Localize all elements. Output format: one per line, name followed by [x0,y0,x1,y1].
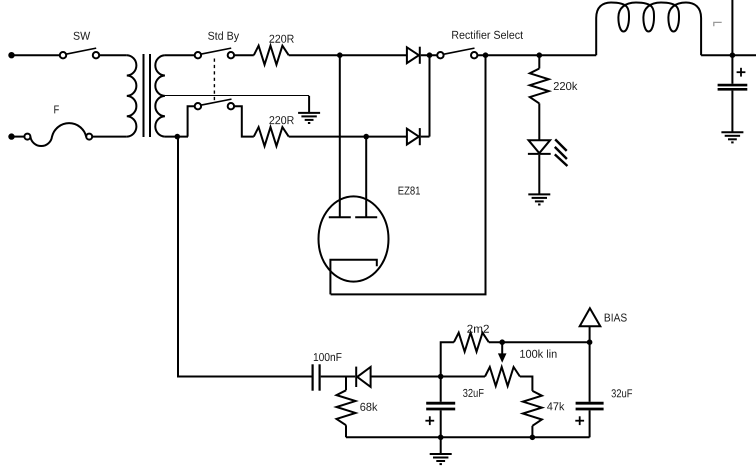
node bias node junction [438,374,444,380]
label BIAS [605,314,627,322]
label 220k [554,82,578,90]
diode D4 bias [356,367,370,387]
wire [489,341,590,343]
wire cathode return [331,55,486,294]
wire standby pole2 to lower resistor [234,106,254,136]
polarity plus 32uF left [425,416,434,425]
label F [54,106,59,114]
label 220R [269,116,293,124]
transformer T1 secondary [155,55,165,136]
label 68k [360,403,377,411]
wire [371,376,441,378]
wire plate 1 drop [339,55,341,217]
switch Std By pole 1 [195,48,234,58]
capacitor 32uF right [576,342,604,437]
switch SW [60,48,99,58]
wire [92,136,127,138]
node wiper junction [499,339,505,345]
wire rail 68k to ground [346,436,441,438]
wire center tap drop [308,96,310,113]
wire [477,54,596,56]
wire [421,54,437,56]
node BIAS junction [587,339,593,345]
node junction to bias feed [175,134,181,140]
wire [12,54,60,56]
label 32uF [463,389,484,397]
transformer T1 core [143,54,145,137]
label 2m2 [467,325,489,333]
ground LED [528,194,550,204]
wire BIAS riser [589,326,591,342]
ground output cap [721,132,743,142]
label EZ81 [399,187,421,195]
diode D1 [407,47,420,64]
inductor L1 choke [596,3,701,56]
node output junction [730,52,736,58]
wire [234,54,254,56]
tube plate 2 [355,216,377,218]
label SW [74,32,91,40]
node junction plate 1 [337,52,343,58]
wire pot left [441,376,485,378]
polarity plus C1 [737,68,746,77]
tube EZ81 envelope [319,196,389,281]
node mains terminal N [8,133,14,139]
capacitor 32uF left [426,377,455,438]
switch Std By gang dashed link [213,59,215,101]
label 220R [269,35,293,43]
label corner mark [714,22,722,26]
diode D2 [407,128,420,145]
label 32uF [612,389,633,397]
wire bias rail [441,436,590,438]
wire [321,376,356,378]
label 100nF [314,353,342,361]
LED D3 [528,140,551,194]
tube plate 1 [329,216,351,218]
node junction plate 2 [363,134,369,140]
node mains terminal L [8,52,14,58]
wire 2m2 left leg [441,342,454,376]
wire [12,136,25,138]
capacitor 100nF [313,364,320,390]
capacitor C1 output [718,55,748,132]
terminal BIAS triangle [580,308,601,326]
wiper arrow [498,342,507,363]
label Rectifier Select [452,31,523,39]
potentiometer 100k lin [485,367,520,386]
LED arrows [555,139,568,166]
wire [289,54,407,56]
node rail 47k junction [530,435,536,441]
wire [289,136,407,138]
node LED branch junction [537,52,543,58]
wire D2 cathode riser [429,55,431,136]
label Std By [208,31,239,42]
tube cathode [330,260,376,295]
polarity plus 32uF right [575,416,584,425]
switch Std By pole 2 [195,99,234,109]
node rectifier output junction [483,52,489,58]
wire secondary top [165,54,195,56]
resistor 220R bottom [254,127,289,146]
resistor 2m2 [454,333,489,352]
switch Rectifier Select [437,48,477,58]
wire pot right to 47k [520,377,533,391]
node rail ground junction [438,435,444,441]
resistor 68k [337,377,356,438]
wire L to standby pole 2 [188,106,195,136]
resistor 220R top [254,46,289,65]
wire [701,54,756,56]
ground center tap [298,113,320,123]
wire [99,54,127,56]
transformer T1 primary [127,55,137,136]
fuse F [24,123,92,146]
node diode junction [427,52,433,58]
wire HT riser to top edge [731,0,733,55]
wire bias feed vertical [178,137,312,377]
wire [421,136,430,138]
resistor 47k [523,391,542,437]
label 47k [547,402,564,410]
ground bias rail [430,437,452,464]
wire secondary center tap [165,95,309,97]
resistor 220k [530,55,549,140]
label 100k lin [520,350,556,358]
wire secondary bottom [165,136,188,138]
wire plate 2 drop [365,137,367,218]
